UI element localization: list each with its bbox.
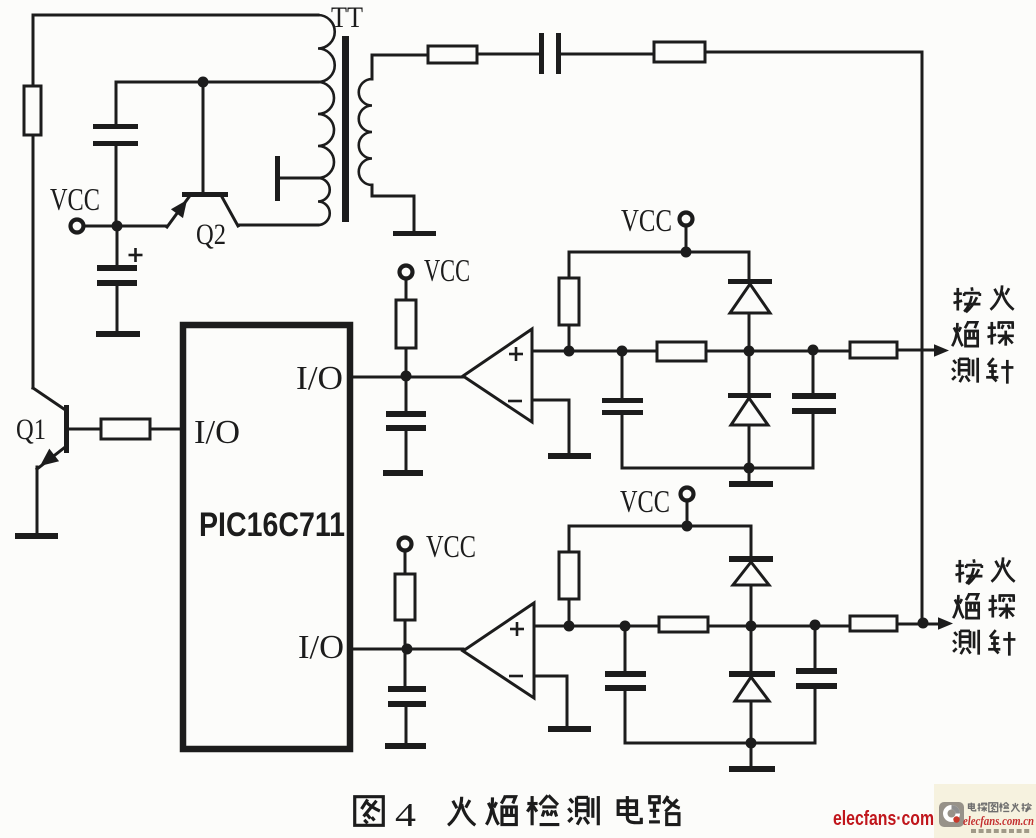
svg-text:I/O: I/O [194, 414, 240, 451]
svg-text:VCC: VCC [424, 252, 470, 288]
svg-text:VCC: VCC [50, 181, 100, 217]
svg-text:VCC: VCC [620, 483, 670, 519]
svg-text:TT: TT [331, 1, 363, 34]
svg-text:I/O: I/O [298, 629, 344, 666]
svg-text:Q1: Q1 [16, 413, 46, 446]
svg-text:VCC: VCC [426, 528, 476, 564]
svg-text:I/O: I/O [296, 360, 343, 397]
svg-text:elecfans·com: elecfans·com [833, 808, 934, 830]
svg-text:Q2: Q2 [196, 218, 226, 251]
svg-text:VCC: VCC [621, 202, 672, 238]
svg-text:PIC16C711: PIC16C711 [199, 506, 345, 544]
svg-text:4: 4 [395, 797, 416, 834]
svg-text:elecfans.com.cn: elecfans.com.cn [963, 813, 1034, 828]
